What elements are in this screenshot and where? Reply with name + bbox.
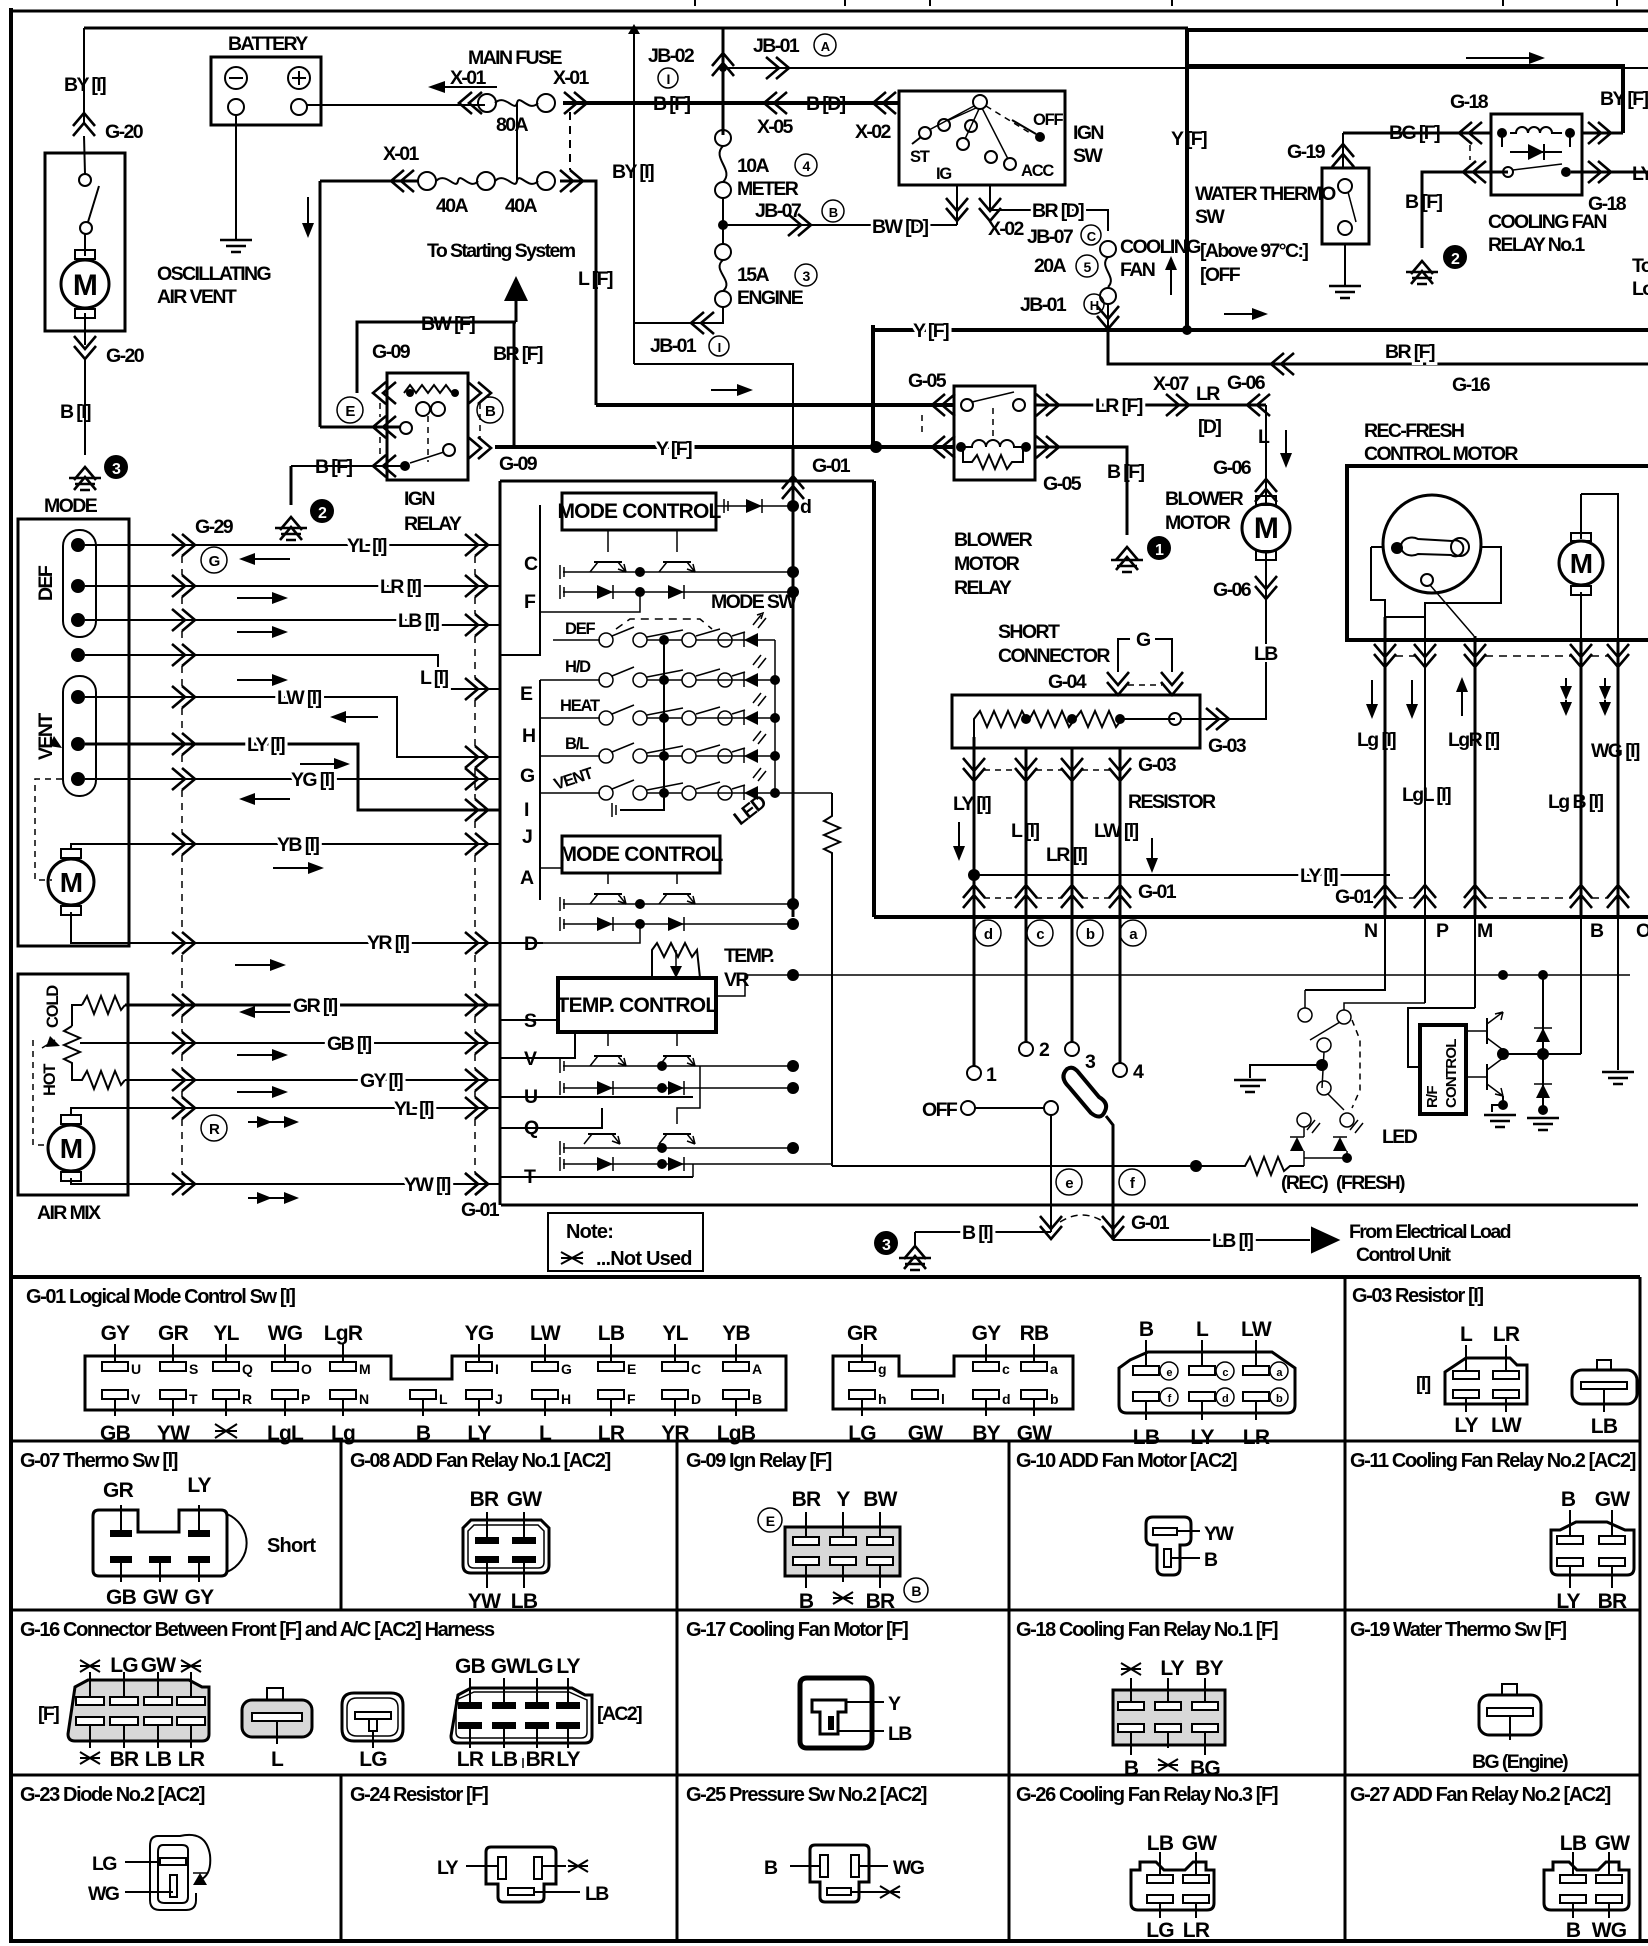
svg-text:A: A (520, 867, 534, 889)
svg-text:J: J (495, 1391, 502, 1407)
relay diode (1510, 151, 1562, 153)
G-03 small connector (1572, 1370, 1637, 1404)
svg-text:5: 5 (1084, 259, 1092, 275)
chevron JB-01 I (691, 312, 714, 334)
LED sparks DEF (753, 613, 766, 628)
resistor box G-04 (952, 695, 1200, 748)
arrow left GR (249, 1011, 290, 1013)
G-01 conn2 top pins (847, 1322, 886, 1377)
right chevron column C..A (465, 534, 488, 556)
svg-text:LB: LB (1254, 643, 1278, 665)
svg-text:To: To (1632, 255, 1648, 277)
svg-text:B [I]: B [I] (60, 401, 91, 423)
water thermo sw box (1322, 168, 1369, 244)
svg-text:10A: 10A (737, 155, 769, 177)
dashed links G-01 row (984, 897, 1110, 899)
svg-text:JB-01: JB-01 (753, 35, 800, 57)
blower motor M2 (1256, 496, 1276, 505)
chevron relay switch out (1588, 161, 1611, 183)
wire fuse junction vertical (516, 103, 518, 181)
arrow left row1 (249, 558, 290, 560)
svg-text:BY [F]: BY [F] (1600, 88, 1648, 110)
svg-text:G: G (209, 553, 220, 570)
hot resistor (72, 1063, 125, 1089)
transistor T2 (663, 561, 691, 563)
svg-text:IGN: IGN (1073, 122, 1103, 144)
svg-text:X-01: X-01 (553, 67, 590, 89)
fuse 15A engine (715, 244, 731, 260)
svg-text:BR: BR (792, 1488, 821, 1511)
arrow right GY (237, 1091, 278, 1093)
svg-text:M: M (60, 1133, 83, 1164)
arrow right row2 (237, 597, 278, 599)
wire G-19 vertical top (1342, 133, 1344, 168)
fan wire d to contact 1 (973, 917, 976, 1066)
diode row 2 (563, 923, 790, 925)
relay coil side wires (1502, 133, 1570, 147)
svg-text:YW: YW (157, 1422, 190, 1445)
svg-text:M: M (359, 1361, 370, 1377)
node d (787, 500, 799, 512)
svg-text:FAN: FAN (1120, 259, 1155, 281)
svg-text:BR [D]: BR [D] (1032, 200, 1084, 222)
wire 20A fuse to Y bus (1107, 304, 1109, 330)
svg-text:M: M (1254, 512, 1278, 545)
fuse 40A second (495, 178, 538, 184)
svg-text:B: B (764, 1857, 778, 1879)
mode sw row B/L (540, 755, 600, 757)
svg-text:G-17 Cooling Fan Motor [F]: G-17 Cooling Fan Motor [F] (686, 1619, 908, 1641)
BW[F] wire (357, 322, 516, 393)
svg-text:OFF: OFF (1033, 111, 1064, 129)
svg-text:B: B (1561, 1488, 1576, 1511)
svg-text:GR: GR (847, 1322, 878, 1345)
wire BR[F] fuse to relay (320, 426, 400, 429)
svg-text:BLOWER: BLOWER (1165, 488, 1244, 510)
diode d feed (716, 505, 793, 507)
X-07 chevron (1166, 394, 1189, 416)
svg-text:LR: LR (457, 1748, 484, 1771)
blower relay switch contacts (961, 399, 973, 411)
connector X-05 chevron (764, 92, 787, 114)
svg-text:G-06: G-06 (1213, 579, 1252, 601)
svg-text:E: E (766, 1513, 775, 1529)
svg-text:LgL [I]: LgL [I] (1402, 784, 1451, 806)
svg-text:I: I (666, 71, 669, 87)
svg-text:(REC): (REC) (1281, 1172, 1328, 1194)
svg-text:LW [l]: LW [l] (1094, 820, 1139, 842)
G-25 connector body (810, 1845, 869, 1902)
BW [D] wire (723, 224, 957, 226)
svg-text:B: B (1124, 1757, 1139, 1780)
connector G-01 body (85, 1356, 786, 1410)
TEMP CONTROL box (558, 978, 716, 1032)
Y[F] frame top (1185, 28, 1648, 32)
wire row YG (85, 778, 500, 780)
mode sw common bus (620, 640, 664, 810)
diode column bottom (1536, 1084, 1550, 1098)
svg-text:Short: Short (267, 1535, 316, 1557)
chevron on resistor out (1206, 708, 1229, 730)
fuse 80A (478, 94, 496, 112)
chevron f (1102, 1216, 1124, 1239)
svg-text:c: c (1222, 1367, 1228, 1379)
chevrons right of ign relay (468, 382, 491, 404)
thermo sw contact bottom (1338, 221, 1352, 235)
rec switch top contact (1298, 1008, 1312, 1022)
svg-text:Lg B [I]: Lg B [I] (1548, 791, 1603, 813)
mode sw dashed top (616, 619, 712, 629)
blower relay blade (972, 392, 1014, 402)
svg-text:DEF: DEF (35, 565, 57, 601)
JB-02 circled I (658, 68, 678, 88)
G-01 chevrons right group (1374, 885, 1396, 908)
svg-text:N: N (1364, 920, 1377, 942)
rf collector junction (1497, 1048, 1509, 1060)
pot vertical (64, 1026, 80, 1068)
rec switch blade (1310, 1022, 1340, 1040)
svg-text:VENT: VENT (35, 713, 57, 760)
temp emitter row 1 (563, 1065, 790, 1067)
svg-text:Control Unit: Control Unit (1356, 1244, 1452, 1266)
G-16 connector small 1 (242, 1700, 312, 1737)
svg-text:JB-01: JB-01 (1020, 294, 1067, 316)
svg-text:JB-02: JB-02 (648, 45, 695, 67)
svg-text:YG [l]: YG [l] (291, 769, 335, 791)
svg-text:LgR: LgR (324, 1322, 363, 1345)
ground number 2 (310, 499, 334, 523)
svg-text:AIR VENT: AIR VENT (157, 286, 237, 308)
G-16 connector F body (68, 1680, 209, 1741)
svg-text:[OFF: [OFF (1200, 264, 1241, 286)
G-29 dashed links (181, 556, 183, 932)
D wire link (540, 924, 640, 943)
dashed links rec-fresh row (1395, 655, 1608, 657)
svg-text:BG [F]: BG [F] (1389, 122, 1440, 144)
resistor element (974, 711, 1175, 737)
DEF pins (71, 538, 85, 552)
svg-text:d: d (800, 496, 811, 518)
cooling fan up arrow (1170, 268, 1172, 295)
svg-text:G-06: G-06 (1213, 457, 1252, 479)
wiper arrow (33, 1040, 48, 1145)
svg-text:B: B (1590, 920, 1604, 942)
G-29 chevron column (172, 534, 195, 556)
svg-text:YG: YG (465, 1322, 494, 1345)
svg-text:LY: LY (1160, 1657, 1184, 1680)
page left border (9, 8, 13, 1941)
G-07 connector body (93, 1510, 227, 1576)
dashed links below resistor (984, 769, 1110, 771)
rec switch second contact (1337, 1010, 1351, 1024)
REC LED (1290, 1137, 1304, 1151)
chevron right of relay top (1588, 122, 1611, 144)
svg-text:G-09 Ign Relay [F]: G-09 Ign Relay [F] (686, 1450, 832, 1472)
svg-text:GR [I]: GR [I] (293, 995, 338, 1017)
mode sw row HEAT (540, 717, 600, 719)
svg-text:LG: LG (525, 1655, 553, 1678)
svg-text:BR: BR (866, 1590, 895, 1613)
dial lever circle (1451, 538, 1469, 556)
svg-text:15A: 15A (737, 264, 769, 286)
down arrow LY (958, 822, 960, 851)
G-16 connector small 2 (342, 1693, 403, 1741)
svg-text:GR: GR (103, 1479, 134, 1502)
svg-text:G-24 Resistor [F]: G-24 Resistor [F] (350, 1784, 488, 1806)
table top border (9, 1275, 1640, 1279)
svg-text:F: F (524, 591, 536, 613)
arrow left on top wire (438, 86, 497, 88)
ign sw blades (929, 106, 1008, 159)
G-24 connector body (486, 1847, 556, 1902)
svg-text:IGN: IGN (404, 488, 434, 510)
wire row GY (125, 1079, 500, 1081)
temp vr wires to bus (640, 977, 716, 979)
wire row YR (140, 942, 500, 944)
Y bus horizontal (873, 328, 1648, 332)
LED column VENT (744, 786, 758, 800)
dial mount rect (1371, 547, 1501, 617)
wire JB-01 A right (723, 67, 1648, 69)
dial dot left (1391, 542, 1403, 554)
svg-text:LgB: LgB (717, 1422, 756, 1445)
G-01 connector 2 body (833, 1356, 1073, 1409)
wire row LY with jog (85, 744, 500, 810)
svg-text:From Electrical Load: From Electrical Load (1349, 1221, 1511, 1243)
svg-text:GY: GY (972, 1322, 1002, 1345)
svg-text:L: L (1258, 426, 1270, 448)
fuse 40A first (418, 172, 436, 190)
svg-text:U: U (131, 1361, 141, 1377)
svg-text:B [l]: B [l] (962, 1222, 993, 1244)
LED return bus (774, 640, 776, 793)
emitter row 2 (563, 903, 790, 905)
svg-text:B: B (1566, 1919, 1581, 1942)
svg-text:YW: YW (1204, 1523, 1234, 1545)
svg-text:P: P (1436, 920, 1449, 942)
R/F feed elbow (1408, 1008, 1475, 1067)
svg-text:WG: WG (268, 1322, 303, 1345)
ign sw OFF blade dashed (986, 106, 1030, 133)
dashed connector link left (379, 403, 381, 456)
G-01 chevrons above bus (963, 885, 985, 908)
G-23 diode body (150, 1835, 210, 1910)
G-01 conn2 bottom pins (848, 1390, 886, 1445)
Q wire jog (500, 1108, 602, 1128)
svg-text:G: G (1136, 629, 1150, 651)
svg-text:BATTERY: BATTERY (228, 33, 308, 55)
svg-text:[AC2]: [AC2] (597, 1703, 642, 1725)
rec-fresh dial circle (1383, 495, 1481, 593)
wire below blower motor (1265, 551, 1267, 658)
svg-text:LY: LY (187, 1474, 211, 1497)
chevron e (1040, 1216, 1062, 1239)
B [I] wire to ground 3 (915, 1231, 1051, 1233)
arrow left LW (340, 716, 378, 718)
table v-lines rowD (341, 1775, 1345, 1941)
svg-text:E: E (520, 683, 533, 705)
G-11 connector body (1551, 1522, 1634, 1575)
svg-text:GW: GW (1595, 1488, 1631, 1511)
svg-text:GW: GW (507, 1488, 543, 1511)
panel box top edge (500, 480, 874, 483)
fuse 10A meter (715, 130, 731, 146)
arrow right YW (248, 1197, 289, 1199)
ground symbol 3 (69, 478, 101, 490)
svg-text:G-01: G-01 (461, 1199, 500, 1221)
svg-text:I: I (495, 1361, 498, 1377)
chevron pair on BG wire (1459, 122, 1482, 144)
svg-text:[Above 97°C:]: [Above 97°C:] (1200, 240, 1308, 262)
svg-text:HEAT: HEAT (560, 697, 600, 715)
blower relay coil (963, 440, 1023, 447)
dashed link between fuse connectors (569, 112, 571, 170)
svg-text:LY: LY (1556, 1590, 1580, 1613)
dashed link (921, 415, 923, 437)
table row line 2 (9, 1609, 1640, 1612)
ign sw contacts (938, 119, 950, 131)
wire top horizontal from BY column (84, 27, 1188, 30)
wire BR[F] down from 40A left (319, 181, 322, 427)
svg-text:LB: LB (1133, 1426, 1160, 1449)
BY to G-01 route (634, 364, 793, 448)
svg-text:B: B (416, 1422, 431, 1445)
wire D row (500, 942, 543, 944)
svg-text:GY: GY (101, 1322, 131, 1345)
arrow right YB (273, 867, 314, 869)
svg-text:LgL: LgL (267, 1422, 304, 1445)
svg-text:G: G (520, 765, 534, 787)
svg-text:Y: Y (836, 1488, 850, 1511)
svg-text:...Not Used: ...Not Used (596, 1248, 692, 1270)
ground 1 (1111, 560, 1143, 572)
temp transistor pair 1 (608, 1032, 677, 1046)
svg-text:Y: Y (888, 1693, 901, 1715)
wire relay switch out right (1571, 171, 1648, 174)
svg-text:R: R (209, 1121, 220, 1138)
svg-text:LW: LW (1241, 1318, 1272, 1341)
svg-text:T: T (189, 1391, 198, 1407)
svg-text:BR [F]: BR [F] (1385, 341, 1435, 363)
circled E (337, 397, 363, 423)
G-01 horizontal line (501, 1204, 1638, 1207)
wire row YW (140, 1183, 500, 1185)
chevron on BW wire (788, 214, 811, 236)
B[F] ground drop (290, 466, 293, 505)
svg-text:BR: BR (470, 1488, 499, 1511)
V wire jog (500, 1032, 575, 1058)
VENT pins (71, 690, 85, 704)
circled e (1056, 1169, 1082, 1195)
svg-text:SW: SW (1195, 206, 1225, 228)
chevron above ground 2 (280, 517, 302, 540)
circled G (201, 547, 227, 573)
svg-text:RESISTOR: RESISTOR (1128, 791, 1216, 813)
svg-text:LB: LB (888, 1723, 912, 1745)
svg-text:BY: BY (972, 1422, 1000, 1445)
svg-text:M: M (1477, 920, 1492, 942)
chevrons below rec-fresh box (1374, 644, 1396, 667)
letters column line (500, 505, 540, 900)
svg-text:c: c (1036, 926, 1044, 943)
LED return line bottom (832, 1165, 1196, 1167)
thermo sw contact top (1338, 179, 1352, 193)
svg-text:LY: LY (556, 1748, 580, 1771)
wire B[F] to relay common (291, 465, 405, 467)
rec-fresh motor top wire (1581, 494, 1618, 640)
wire JB-01 I row (634, 307, 723, 323)
battery B1 box (211, 57, 321, 125)
G-06 chevron on L wire (1255, 479, 1277, 502)
svg-text:M: M (60, 867, 83, 898)
svg-text:G-04: G-04 (1048, 671, 1087, 693)
svg-text:RELAY No.1: RELAY No.1 (1488, 234, 1585, 256)
A wire to box (540, 867, 562, 869)
ground 2 right (1406, 272, 1438, 284)
rec-fresh M motor (1571, 533, 1591, 541)
svg-text:Y [F]: Y [F] (913, 320, 949, 342)
rf transistor 1 (1486, 1018, 1488, 1044)
connector X-01 chevron (459, 92, 482, 114)
G-08 connector body (463, 1520, 549, 1573)
svg-text:S: S (189, 1361, 198, 1377)
temp vr arrow (675, 950, 677, 968)
svg-text:HOT: HOT (41, 1064, 59, 1096)
mode sw row DEF (553, 639, 600, 641)
svg-text:[D]: [D] (1198, 416, 1221, 438)
svg-text:C: C (691, 1361, 701, 1377)
svg-text:LB: LB (511, 1590, 538, 1613)
LED column H/D (744, 673, 758, 687)
svg-text:LR [F]: LR [F] (1095, 395, 1143, 417)
svg-text:B: B (799, 1590, 814, 1613)
svg-text:MODE SW: MODE SW (711, 591, 797, 613)
temp diode row 1 (563, 1087, 790, 1089)
dashed arc between e f (1060, 1215, 1104, 1222)
wire to ground 3 (84, 360, 86, 455)
svg-text:LG: LG (1146, 1919, 1174, 1942)
ign relay common dot (400, 461, 410, 471)
svg-text:X-05: X-05 (757, 116, 794, 138)
LED column DEF (745, 639, 775, 641)
arrow down BR[F] (307, 197, 309, 228)
G-01 chevron on vertical (782, 476, 804, 499)
ground number 2 right (1443, 245, 1467, 269)
LR[F] wire to X-07 (1035, 404, 1266, 407)
svg-text:To Starting System: To Starting System (427, 240, 576, 262)
not used symbol (561, 1252, 583, 1264)
G jumper dashed link (1128, 684, 1162, 686)
mode box (18, 519, 129, 946)
svg-text:COOLING FAN: COOLING FAN (1488, 211, 1606, 233)
wire relay to BY corner (1582, 132, 1623, 135)
svg-text:YB: YB (722, 1322, 750, 1345)
svg-text:BY [I]: BY [I] (612, 161, 654, 183)
blower relay box (954, 386, 1035, 480)
fourth pin (71, 648, 85, 662)
svg-text:RB: RB (1020, 1322, 1049, 1345)
svg-text:LB: LB (145, 1748, 172, 1771)
wire from ACC area down (990, 185, 1108, 231)
MODE CONTROL box 1 (562, 493, 716, 530)
dashed connector link right (479, 403, 481, 438)
wire 40A row left (320, 180, 418, 183)
BR [F] wire right section (1108, 330, 1648, 364)
ign relay dashed link (427, 416, 429, 462)
junction dot fuse chain (718, 220, 728, 230)
svg-text:d: d (1002, 1391, 1010, 1407)
svg-text:G-16 Connector Between Front: G-16 Connector Between Front [F] and A/C… (20, 1619, 495, 1641)
